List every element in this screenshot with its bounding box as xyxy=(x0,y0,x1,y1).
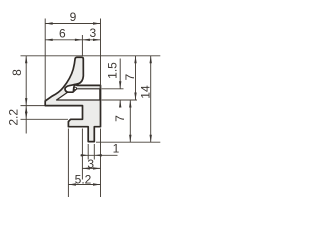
svg-text:3: 3 xyxy=(89,26,96,40)
svg-text:14: 14 xyxy=(138,85,152,99)
svg-text:8: 8 xyxy=(10,69,24,76)
svg-text:7: 7 xyxy=(123,74,137,81)
svg-text:1: 1 xyxy=(113,142,120,156)
svg-text:3: 3 xyxy=(87,157,94,171)
svg-text:7: 7 xyxy=(113,115,127,122)
svg-text:5.2: 5.2 xyxy=(75,172,92,186)
svg-text:6: 6 xyxy=(59,26,66,40)
svg-text:9: 9 xyxy=(70,10,77,24)
svg-text:1.5: 1.5 xyxy=(106,62,120,79)
svg-text:2.2: 2.2 xyxy=(6,109,20,126)
